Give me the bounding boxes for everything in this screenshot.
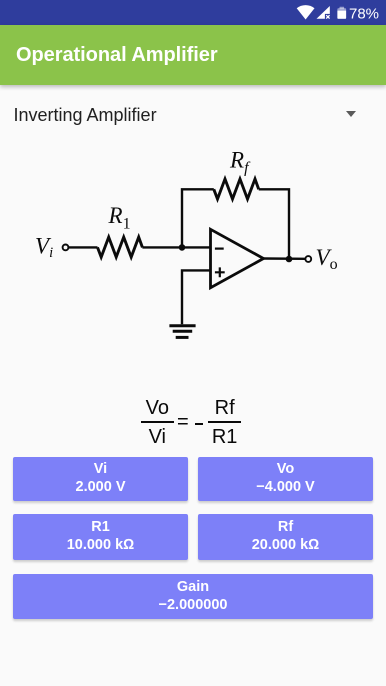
input terminal Vi	[63, 245, 69, 251]
node junction at inverting input	[179, 244, 186, 251]
circuit schematic	[0, 0, 386, 360]
wire non-inverting input to ground	[182, 270, 211, 324]
wire op-amp output	[264, 257, 306, 260]
op-amp plus symbol	[215, 267, 225, 277]
svg-text:Vo: Vo	[316, 245, 338, 273]
formula Vo/Vi = -Rf/R1	[141, 395, 174, 452]
node junction at output	[286, 256, 293, 263]
status bar	[0, 0, 386, 25]
signal icon with x	[317, 6, 331, 20]
resistor R1	[98, 237, 143, 257]
ground	[169, 326, 195, 338]
buttons	[13, 457, 188, 501]
wire R1 to op-amp inverting input	[142, 246, 210, 248]
op-amp minus symbol	[215, 248, 224, 250]
svg-text:Vi: Vi	[35, 234, 53, 262]
wifi icon	[297, 5, 315, 19]
resistor Rf	[214, 179, 259, 199]
wire input to R1	[69, 246, 98, 248]
svg-text:Rf: Rf	[229, 148, 251, 177]
battery icon	[337, 7, 346, 19]
app bar	[0, 25, 386, 85]
wire feedback right vertical to output	[259, 189, 289, 259]
op-amp U1	[211, 229, 264, 287]
svg-text:R1: R1	[108, 203, 131, 233]
output terminal Vo	[305, 256, 311, 262]
spinner row	[14, 105, 157, 126]
wire feedback left vertical	[182, 189, 214, 247]
